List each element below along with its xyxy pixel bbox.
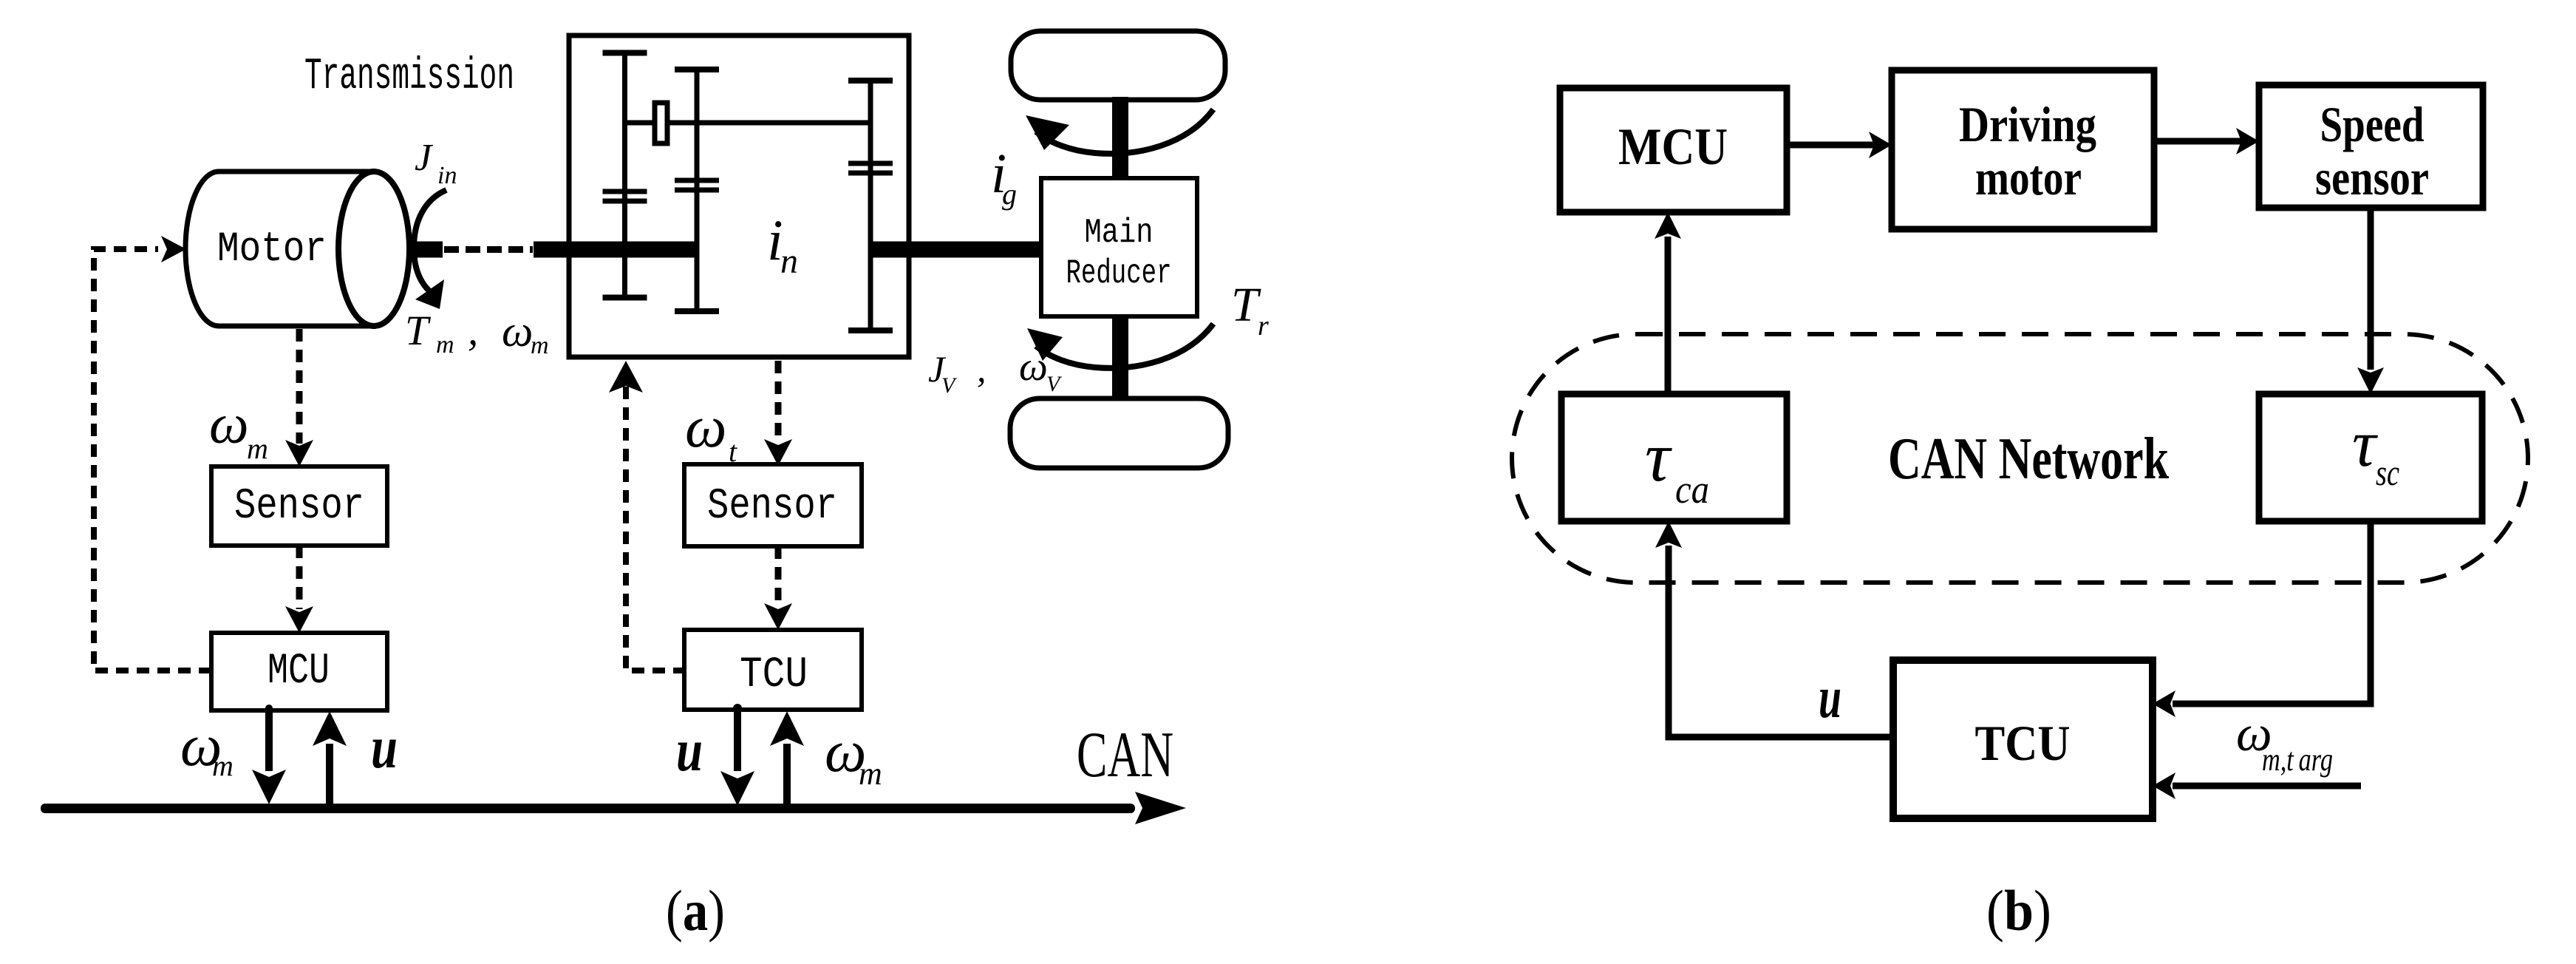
top wheel	[1011, 31, 1225, 100]
transmission gearbox	[569, 35, 909, 357]
TCU box b	[1893, 660, 2153, 818]
CAN bus line	[41, 804, 1135, 813]
gear G1 input	[603, 53, 647, 298]
dashed shaft coupling	[444, 246, 533, 253]
main reducer box	[1041, 178, 1197, 316]
svg-text:m: m	[212, 749, 234, 782]
svg-text:J: J	[415, 137, 434, 179]
svg-text:m: m	[247, 432, 268, 465]
CAN network dashed boundary	[1512, 334, 2528, 583]
svg-text:u: u	[371, 713, 398, 781]
svg-text:T: T	[1231, 278, 1261, 332]
CAN bus arrowhead	[1135, 792, 1186, 824]
svg-text:T: T	[405, 308, 432, 354]
top wheel rotation arrow	[1036, 109, 1213, 154]
svg-text:Sensor: Sensor	[707, 483, 837, 531]
svg-text:CAN: CAN	[1077, 719, 1173, 791]
gear G3 output	[848, 81, 893, 330]
svg-text:τ: τ	[1645, 418, 1672, 496]
TCU to CAN arrow down	[733, 704, 742, 713]
svg-text:(a): (a)	[666, 878, 725, 943]
svg-text:Transmission: Transmission	[304, 52, 514, 102]
MCU to CAN arrow down	[265, 705, 273, 712]
main input shaft	[534, 242, 698, 258]
svg-text:g: g	[1002, 177, 1017, 211]
svg-text:m,t arg: m,t arg	[2262, 741, 2333, 778]
svg-text:m: m	[531, 332, 549, 359]
svg-text:TCU: TCU	[740, 651, 808, 699]
dashed feedback TCU to transmission	[626, 370, 686, 671]
svg-text:in: in	[437, 162, 457, 189]
svg-text:m: m	[436, 331, 454, 359]
svg-text:r: r	[1258, 310, 1269, 342]
svg-text:ω: ω	[209, 393, 249, 455]
output shaft to main reducer	[868, 242, 1041, 258]
svg-text:u: u	[1819, 665, 1841, 730]
bottom axle	[1112, 315, 1128, 403]
motor rotation arrow	[414, 190, 446, 299]
svg-text:Driving: Driving	[1959, 96, 2096, 152]
MCU box b	[1560, 88, 1787, 212]
dashed transmission to sensor B	[775, 361, 782, 442]
CAN to TCU arrow up	[783, 744, 791, 804]
svg-text:ω: ω	[502, 307, 533, 356]
svg-text:ω: ω	[685, 395, 726, 460]
dashed sensor B to TCU	[775, 546, 782, 608]
motor cylinder	[185, 172, 374, 326]
arrow tau_ca to MCU	[1665, 237, 1672, 394]
sensor box B	[684, 464, 862, 546]
arrow w_target to TCU	[2173, 783, 2361, 790]
MCU box	[211, 633, 387, 710]
svg-text:ω: ω	[1019, 344, 1048, 389]
svg-text:,: ,	[977, 348, 987, 390]
arrow driving motor to speed sensor	[2156, 138, 2241, 145]
countershaft	[625, 120, 871, 126]
dashed feedback MCU to motor	[94, 249, 211, 671]
svg-text:sensor: sensor	[2315, 149, 2429, 206]
arrow speed sensor to tau_sc	[2368, 208, 2374, 370]
gear G2 middle	[675, 69, 719, 311]
arrow MCU to driving motor	[1788, 142, 1874, 149]
dashed sensor to MCU	[296, 546, 303, 609]
bottom wheel rotation arrow	[1036, 324, 1213, 368]
TCU box	[684, 630, 862, 710]
u line TCU to tau_ca	[1669, 546, 1893, 737]
svg-text:n: n	[780, 242, 798, 281]
svg-text:m: m	[859, 756, 882, 792]
svg-text:Reducer: Reducer	[1066, 254, 1172, 293]
motor shaft stub	[412, 242, 443, 258]
sensor box A	[211, 466, 387, 546]
svg-text:Main: Main	[1085, 214, 1154, 252]
top axle	[1112, 97, 1128, 180]
svg-text:,: ,	[468, 308, 478, 354]
svg-text:TCU: TCU	[1975, 715, 2071, 771]
svg-text:sc: sc	[2376, 452, 2399, 493]
svg-text:Motor: Motor	[217, 226, 327, 274]
line tau_sc to TCU	[2173, 521, 2371, 704]
svg-text:CAN Network: CAN Network	[1888, 425, 2169, 492]
tau_sc box	[2259, 394, 2482, 521]
svg-text:τ: τ	[2352, 407, 2378, 481]
svg-text:ca: ca	[1675, 467, 1709, 512]
tau_ca box	[1561, 394, 1787, 521]
svg-text:MCU: MCU	[268, 648, 330, 696]
svg-text:Sensor: Sensor	[234, 483, 364, 531]
driving motor box	[1892, 70, 2154, 229]
synchronizer	[655, 103, 667, 143]
svg-text:MCU: MCU	[1618, 118, 1728, 176]
svg-text:(b): (b)	[1986, 878, 2051, 943]
svg-text:motor: motor	[1975, 149, 2082, 206]
svg-text:Speed: Speed	[2320, 96, 2425, 152]
CAN to MCU arrow up	[326, 744, 333, 804]
dashed motor to sensor	[296, 329, 303, 444]
svg-text:u: u	[676, 716, 703, 784]
speed sensor box	[2259, 85, 2483, 208]
bottom wheel	[1010, 398, 1228, 468]
